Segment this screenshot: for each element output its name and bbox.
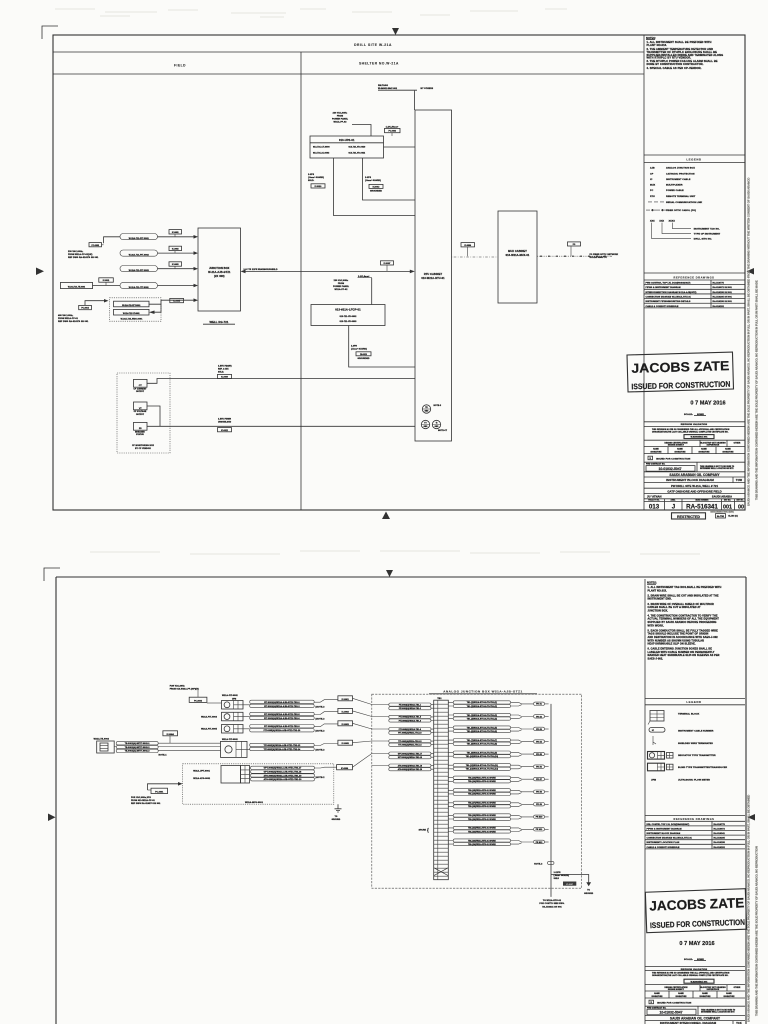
svg-text:W21A-ATG-0001: W21A-ATG-0001	[193, 777, 211, 780]
svg-text:SIGNATURE: SIGNATURE	[699, 450, 711, 453]
svg-text:W-21A-721-PIT-0001: W-21A-721-PIT-0001	[129, 237, 149, 240]
svg-text:FOR CONT'D SEE DWG.: FOR CONT'D SEE DWG.	[539, 903, 565, 905]
sheet 2 notes-legend column border	[644, 579, 646, 1024]
incoming field wires to junction box	[353, 698, 389, 704]
svg-text:DI-0013: DI-0013	[360, 354, 367, 356]
svg-text:SUPERVISOR: SUPERVISOR	[707, 989, 720, 991]
svg-text:W21A-TIT-0002: W21A-TIT-0002	[222, 738, 239, 741]
cable tag DI-0013 grounded	[369, 184, 383, 188]
svg-text:JUNCTION BOX: JUNCTION BOX	[209, 267, 230, 270]
svg-text:480 VAC,60Hz,: 480 VAC,60Hz,	[58, 314, 74, 317]
svg-text:TB1-(20)/W21A-RTU-01 SPARE: TB1-(20)/W21A-RTU-01 SPARE	[468, 818, 496, 821]
svg-text:SCALE:: SCALE:	[684, 413, 693, 416]
svg-text:DESIGN AGENCY: DESIGN AGENCY	[668, 443, 685, 446]
svg-text:TB1-(15)/W21A-RTU-01 SPARE: TB1-(15)/W21A-RTU-01 SPARE	[468, 789, 496, 792]
svg-text:FO FIBER OPTIC NETWORK: FO FIBER OPTIC NETWORK	[590, 254, 619, 256]
wire UPS bottom to RTU 1	[334, 158, 416, 216]
svg-text:OTHER: OTHER	[734, 987, 741, 989]
cp breaker status instrument	[134, 422, 148, 430]
svg-text:PWD CONTRACT NO.: PWD CONTRACT NO.	[646, 463, 666, 466]
svg-text:PR #7: PR #7	[536, 779, 542, 781]
svg-text:013: 013	[649, 504, 660, 511]
revision validation band	[644, 421, 745, 423]
svg-text:013-721-VD-0003: 013-721-VD-0003	[340, 321, 357, 323]
svg-text:TB1-(8)/W21A-RTU-01-TB-TB1-(8): TB1-(8)/W21A-RTU-01-TB-TB1-(8)	[467, 743, 498, 746]
wire arrow into VT instrument	[154, 304, 161, 312]
svg-text:SCALE:: SCALE:	[684, 958, 693, 961]
svg-text:GMS: GMS	[425, 411, 429, 413]
svg-text:NOTE-1: NOTE-1	[159, 754, 168, 756]
svg-text:TB1-(9)/W21A-RTU-01-TB-TB1-(9): TB1-(9)/W21A-RTU-01-TB-TB1-(9)	[467, 751, 498, 754]
svg-text:MULTIPLEXER: MULTIPLEXER	[666, 184, 683, 186]
sheet 1 top center tick	[392, 28, 399, 35]
cable tag IC-0004 sheet2	[163, 731, 178, 736]
svg-text:PIT-0003(A)/W21A-TB1-5: PIT-0003(A)/W21A-TB1-5	[399, 716, 421, 719]
svg-text:ANALOG JUNCTION BOX W21A-AJB-: ANALOG JUNCTION BOX W21A-AJB-GTZ1	[443, 690, 523, 694]
svg-text:PIT-0005(A)/W21A-TB1-9: PIT-0005(A)/W21A-TB1-9	[399, 728, 421, 731]
cable tag IC-0001 sheet2	[338, 696, 353, 701]
cable tag IC-0007 exit	[563, 882, 576, 886]
tag format leader lines	[652, 223, 691, 239]
svg-text:XXX: XXX	[650, 221, 655, 223]
svg-text:SIGNATURE: SIGNATURE	[724, 995, 736, 998]
svg-text:INSTRUMENT CABLE: INSTRUMENT CABLE	[666, 178, 691, 181]
power tag PC-0004	[79, 305, 92, 309]
svg-text:W21A-PIT-0003: W21A-PIT-0003	[201, 715, 218, 718]
svg-text:INSTRUMENT BLOCK DIAGRAM: INSTRUMENT BLOCK DIAGRAM	[666, 478, 714, 482]
legend serial communication link symbol	[648, 201, 664, 203]
svg-text:JUNCTION BOX.: JUNCTION BOX.	[648, 609, 669, 612]
svg-text:TB1-(24)/W21A-RTU-01 SPARE: TB1-(24)/W21A-RTU-01 SPARE	[468, 843, 496, 846]
RESTRICTED stamp	[672, 513, 706, 519]
stadium labels row B	[250, 712, 315, 715]
revision feature box sheet2	[684, 979, 714, 983]
svg-text:SIGNATURE: SIGNATURE	[700, 995, 712, 998]
svg-text:GROUND: GROUND	[332, 819, 341, 821]
svg-text:W-21A-721-XPT-0001: W-21A-721-XPT-0001	[122, 304, 140, 307]
scan artifact marks between sheets	[90, 551, 700, 554]
svg-text:W-21A-AJB-GTZ1: W-21A-AJB-GTZ1	[208, 271, 231, 274]
cable tag IC-0005 row5	[170, 298, 184, 302]
svg-text:FROM: FROM	[337, 115, 344, 117]
svg-text:CP: CP	[650, 174, 654, 176]
svg-text:TCW: TCW	[736, 478, 743, 482]
svg-text:W-214-721-WDS-0001: W-214-721-WDS-0001	[121, 318, 144, 321]
svg-text:IC-0003: IC-0003	[172, 264, 179, 266]
svg-text:TB1-(6)/W21A-RTU-01-TB-TB1-(6): TB1-(6)/W21A-RTU-01-TB-TB1-(6)	[467, 730, 498, 733]
svg-text:SCADA 9600FT-C: SCADA 9600FT-C	[590, 256, 608, 259]
svg-text:1-UPS: 1-UPS	[365, 177, 372, 179]
svg-text:TB1-(23)/W21A-RTU-01 SPARE: TB1-(23)/W21A-RTU-01 SPARE	[468, 839, 496, 842]
mov wire labels	[251, 766, 315, 769]
transmitter symbol row A	[222, 701, 244, 710]
svg-text:(.5mm² GUARD): (.5mm² GUARD)	[308, 176, 324, 179]
wire row A to tag	[243, 700, 338, 705]
svg-text:TE-0002(A)-W/TIT-0002-2: TE-0002(A)-W/TIT-0002-2	[125, 746, 150, 749]
svg-text:RM.TAGS: RM.TAGS	[378, 84, 388, 87]
svg-text:MUX: MUX	[650, 184, 656, 186]
svg-text:TE-0002(A)-W/TIT-0002-1: TE-0002(A)-W/TIT-0002-1	[125, 742, 150, 745]
svg-text:PR #5: PR #5	[536, 754, 542, 756]
svg-text:ATG-0001(A)/W21A-AJB-GTZ1-TB1-: ATG-0001(A)/W21A-AJB-GTZ1-TB1-19	[264, 774, 302, 777]
svg-text:PR #8: PR #8	[536, 792, 542, 794]
svg-text:PIPNG & INSTRUMENT DIAGRAM: PIPNG & INSTRUMENT DIAGRAM	[647, 827, 682, 830]
main field cable wire to RTU	[243, 270, 413, 272]
svg-text:REFERENCE DRAWINGS: REFERENCE DRAWINGS	[674, 275, 715, 279]
svg-text:10-01032-5047: 10-01032-5047	[658, 467, 681, 471]
svg-text:BY OTHERS: BY OTHERS	[421, 88, 434, 90]
svg-text:IC-0001: IC-0001	[172, 232, 179, 234]
svg-text:NOTE-C7: NOTE-C7	[438, 430, 447, 432]
svg-text:PR #12: PR #12	[536, 842, 543, 844]
svg-text:PC-0001: PC-0001	[155, 792, 164, 794]
svg-text:TB1-(5)/W21A-RTU-01-TB-TB1-(5): TB1-(5)/W21A-RTU-01-TB-TB1-(5)	[467, 726, 498, 729]
sheet 2 top center tick	[386, 570, 393, 577]
cable tag IC-0002	[169, 246, 182, 250]
svg-text:PIT-0005(A)/W21A-AJB-GTZ1-TB1-: PIT-0005(A)/W21A-AJB-GTZ1-TB1-10	[264, 729, 301, 732]
wire tag row A	[207, 702, 222, 704]
svg-text:W-84002-5047-001: W-84002-5047-001	[378, 87, 398, 90]
svg-text:INSTRUMENT CABLE NUMBER: INSTRUMENT CABLE NUMBER	[678, 729, 714, 732]
cable tag DI-0013 lfcp	[356, 352, 371, 356]
svg-text:JU 'ATNAH: JU 'ATNAH	[647, 495, 662, 499]
scan artifact marks top	[55, 9, 567, 13]
svg-text:GROUNDED: GROUNDED	[358, 358, 371, 360]
svg-text:}NOTE-2: }NOTE-2	[316, 731, 326, 733]
svg-text:FROM W21A-PP-01: FROM W21A-PP-01	[58, 317, 79, 320]
svg-text:1-2/C,#6mm²: 1-2/C,#6mm²	[386, 125, 399, 128]
svg-text:WELL RG-721: WELL RG-721	[209, 320, 228, 324]
svg-text:J: J	[672, 504, 676, 511]
power tag PC-0003	[89, 243, 102, 247]
svg-text:NAME: NAME	[725, 448, 731, 451]
svg-text:CATHODIC PROTECTION: CATHODIC PROTECTION	[666, 173, 695, 176]
cp wire 1 to RTU	[147, 379, 415, 384]
legend fiber optic cable symbol	[646, 209, 668, 211]
svg-text:BREAKER: BREAKER	[135, 431, 145, 434]
svg-text:ISSUED FOR CONSTRUCTION: ISSUED FOR CONSTRUCTION	[656, 458, 691, 460]
svg-text:013-721-VD-0010: 013-721-VD-0010	[349, 147, 366, 149]
svg-text:SHLD.: SHLD.	[218, 371, 224, 373]
svg-text:1-UPS: 1-UPS	[308, 174, 315, 176]
wire te to tit	[114, 743, 220, 750]
svg-text:013-W21A-MUX-01: 013-W21A-MUX-01	[506, 254, 530, 257]
svg-text:TO: TO	[335, 816, 338, 818]
cable tag IC-0006 sheet2	[337, 765, 353, 770]
svg-text:ATG-0001(A)/W21A-TB1-19: ATG-0001(A)/W21A-TB1-19	[398, 764, 422, 767]
svg-text:001: 001	[723, 505, 732, 511]
cable tag IC-0003 sheet2	[338, 721, 353, 726]
wire row1 to junction box	[158, 236, 197, 238]
svg-text:SPARE: SPARE	[419, 828, 427, 831]
svg-text:HEAT-SHRINKABLE SLIP ON SLEEVE: HEAT-SHRINKABLE SLIP ON SLEEVE.	[648, 643, 696, 646]
svg-text:INSTRUMENT TAG NO.: INSTRUMENT TAG NO.	[694, 228, 720, 231]
svg-text:TIT-0002(A)/W21A-AJB-GTZ1-TB1-: TIT-0002(A)/W21A-AJB-GTZ1-TB1-14	[264, 748, 301, 751]
svg-text:ORGANIZATION,THE LAST COLLABLE: ORGANIZATION,THE LAST COLLABLE ORIGINAL …	[652, 430, 729, 433]
svg-text:}NOTE-2: }NOTE-2	[316, 749, 326, 751]
svg-text:W21A-PIT-0005: W21A-PIT-0005	[201, 727, 218, 730]
legend shielded wire symbol	[653, 736, 656, 745]
svg-text:1-EFX F(8&W): 1-EFX F(8&W)	[218, 365, 232, 367]
sheet 2 left border arrow	[48, 814, 56, 822]
svg-text:CONNECTION DIAGRAM 013-W21A-RT: CONNECTION DIAGRAM 013-W21A-RTU-01	[646, 295, 692, 298]
svg-text:TB1-(13)/W21A-RTU-01 SPARE: TB1-(13)/W21A-RTU-01 SPARE	[468, 777, 496, 780]
svg-text:DONE BY CONSTRUCTION CONTRACTO: DONE BY CONSTRUCTION CONTRACTOR.	[647, 62, 704, 66]
svg-text:REVISION VALIDATION: REVISION VALIDATION	[681, 423, 708, 426]
cable tag IC-0010	[311, 184, 325, 188]
wire feeder to LFCP	[371, 278, 373, 305]
svg-text:PR #9: PR #9	[536, 804, 542, 806]
svg-text:RTU CABINET: RTU CABINET	[424, 273, 443, 276]
issued for construction row	[648, 456, 653, 460]
wire row5 to junction box	[149, 300, 196, 304]
svg-text:TIT-0002(A)/W21A-TB1-14: TIT-0002(A)/W21A-TB1-14	[398, 744, 421, 747]
rtu temperature instrument bubbles	[422, 405, 430, 413]
svg-text:IC-0003: IC-0003	[342, 724, 350, 726]
svg-text:NAME: NAME	[678, 992, 684, 995]
svg-text:IC-0011: IC-0011	[103, 280, 110, 282]
svg-text:FIT-0002(A)/W21A-AJB-GTZ1-TB1-: FIT-0002(A)/W21A-AJB-GTZ1-TB1-2	[264, 705, 299, 708]
wire power to cp instruments	[85, 301, 106, 306]
svg-text:PR #2: PR #2	[536, 716, 542, 718]
svg-text:REF DWG RA-516370 SH 001: REF DWG RA-516370 SH 001	[68, 256, 99, 259]
svg-text:POWER PANEL: POWER PANEL	[333, 285, 350, 288]
svg-text:SIGNATURE: SIGNATURE	[651, 450, 663, 453]
svg-text:ORGANIZATION,THE LAST COLLABLE: ORGANIZATION,THE LAST COLLABLE ORIGINAL …	[652, 974, 729, 977]
svg-text:013-721-21-0003: 013-721-21-0003	[313, 152, 329, 154]
svg-text:W-21A-721-PIT-0002: W-21A-721-PIT-0002	[129, 253, 149, 256]
svg-text:STATUS: STATUS	[136, 433, 144, 436]
ground branch wire	[551, 875, 589, 883]
svg-text:W-84002/5047-001: W-84002/5047-001	[691, 980, 708, 983]
stadium labels row D	[250, 743, 315, 746]
svg-text:NAME: NAME	[701, 448, 707, 451]
svg-text:230 VAC,60Hz: 230 VAC,60Hz	[334, 279, 349, 282]
svg-text:ATG-0001(A)/W21A-AJB-GTZ1-TB1-: ATG-0001(A)/W21A-AJB-GTZ1-TB1-20	[264, 778, 302, 781]
svg-text:REMOTE TERMINAL UNIT: REMOTE TERMINAL UNIT	[666, 195, 696, 198]
svg-text:NAME: NAME	[726, 992, 732, 995]
svg-text:LEGEND: LEGEND	[686, 158, 701, 162]
svg-text:RA-516072: RA-516072	[714, 827, 726, 830]
svg-text:RA-516295 SH 001: RA-516295 SH 001	[713, 300, 733, 303]
svg-text:OTHER: OTHER	[734, 442, 741, 444]
cp cable tag IC-0009	[218, 374, 232, 378]
instrument W-21A-721-VT-0001	[114, 309, 150, 315]
svg-text:INSTRUMENT BLOCK DIAGRAM: INSTRUMENT BLOCK DIAGRAM	[647, 832, 681, 835]
wire row4	[93, 285, 197, 287]
cable tag IC-0001	[169, 230, 182, 234]
svg-text:RA-516295 SH 001: RA-516295 SH 001	[713, 295, 733, 298]
sheet 2 corner mark top-left	[44, 568, 60, 581]
svg-text:W/ARMOR/SHIELD: W/ARMOR/SHIELD	[258, 268, 278, 271]
wire row1 power drop	[104, 237, 120, 243]
svg-text:PIT-0003(A)/W21A-TB1-6: PIT-0003(A)/W21A-TB1-6	[399, 719, 421, 722]
svg-text:THIS DRAWING AND THE INFORMATI: THIS DRAWING AND THE INFORMATION CONTAIN…	[755, 280, 759, 500]
svg-text:PC-0002: PC-0002	[194, 700, 203, 702]
svg-text:CLASS (C): CLASS (C)	[728, 514, 738, 517]
svg-text:TERMINAL BLOCK: TERMINAL BLOCK	[678, 712, 700, 715]
svg-text:W21A-TE-0002: W21A-TE-0002	[94, 738, 110, 741]
svg-text:FIBER OPTIC CABOL (FO): FIBER OPTIC CABOL (FO)	[666, 209, 696, 212]
svg-text:CP MONITORING BOX: CP MONITORING BOX	[132, 445, 155, 447]
svg-text:BLIND TYPE TRANSMITTER/TRANSDU: BLIND TYPE TRANSMITTER/TRANSDUCER	[678, 766, 727, 769]
svg-text:SIGNATURE: SIGNATURE	[676, 995, 688, 998]
svg-text:POWER PANEL: POWER PANEL	[332, 117, 349, 120]
svg-text:GATF ONSHORE AND OFFSHORE FIEL: GATF ONSHORE AND OFFSHORE FIELD	[667, 489, 721, 493]
svg-text:013-721-CT-0000: 013-721-CT-0000	[313, 147, 330, 149]
svg-text:W-84002/5047-001: W-84002/5047-001	[691, 436, 708, 439]
svg-text:SAUDI ARAMCO AND THE INFORMATI: SAUDI ARAMCO AND THE INFORMATION CONTAIN…	[747, 178, 751, 506]
svg-text:XXXX: XXXX	[669, 221, 676, 223]
wire row C	[243, 724, 338, 729]
svg-text:PC-0004: PC-0004	[81, 307, 89, 310]
class box	[716, 514, 726, 518]
svg-text:PR #4: PR #4	[536, 740, 542, 743]
local fire control panel 013-W21A-LFCP-01	[311, 305, 385, 326]
wire UPS bottom to RTU 2	[363, 158, 416, 200]
svg-text:TB1-(1)/W21A-RTU-01-TB-TB1-(1): TB1-(1)/W21A-RTU-01-TB-TB1-(1)	[467, 701, 498, 704]
svg-text:IC: IC	[650, 179, 653, 181]
wire LFCP to RTU	[349, 326, 415, 368]
transmitter symbol row C	[222, 725, 244, 734]
terminal strip spare X marks	[434, 868, 449, 876]
svg-text:AJB: AJB	[650, 167, 655, 170]
svg-text:W21A-PP-02: W21A-PP-02	[335, 288, 349, 291]
cp instruments dashed box	[110, 298, 162, 321]
svg-text:JACOBS ZATE: JACOBS ZATE	[631, 358, 730, 376]
wire from by-others to RTU top	[414, 91, 416, 110]
fiber tag FO-0001	[568, 242, 581, 246]
instrument row 2 transmitter W-21A-721-PIT-0002	[120, 250, 158, 256]
svg-text:IC-0007: IC-0007	[566, 884, 573, 886]
svg-text:PIT-0003(A)/W21A-AJB-GTZ1-TB1-: PIT-0003(A)/W21A-AJB-GTZ1-TB1-6	[264, 717, 300, 720]
svg-text:TB1-(16)/W21A-RTU-01 SPARE: TB1-(16)/W21A-RTU-01 SPARE	[468, 793, 496, 796]
svg-text:W-21A-721-PIT-0003: W-21A-721-PIT-0003	[129, 269, 149, 272]
svg-text:1-12PR: 1-12PR	[554, 872, 562, 874]
svg-text:TIT-0002(A)/W21A-TB1-13: TIT-0002(A)/W21A-TB1-13	[398, 740, 421, 743]
svg-text:XXX: XXX	[659, 221, 664, 223]
svg-text:FOR VAC,60Hz,3PH: FOR VAC,60Hz,3PH	[131, 796, 151, 799]
svg-text:TB1-(2)/W21A-RTU-01-TB-TB1-(2): TB1-(2)/W21A-RTU-01-TB-TB1-(2)	[467, 705, 498, 708]
stamp JACOBS ZATE sheet2	[645, 889, 746, 933]
svg-text:UPT-0001(A)/W21A-TB1-17: UPT-0001(A)/W21A-TB1-17	[398, 752, 422, 755]
svg-text:IC-0005: IC-0005	[342, 743, 350, 745]
svg-text:THIS REVISION AS WB IS CONSI: THIS REVISION AS WB IS CONSIDERED THE AL…	[652, 428, 730, 431]
svg-text:GMS: GMS	[424, 426, 428, 428]
svg-text:SAUDI ARABIA: SAUDI ARABIA	[712, 495, 732, 499]
svg-text:(.5mm² GUARD): (.5mm² GUARD)	[554, 874, 570, 877]
svg-text:TB1-(11)/W21A-RTU-01-TB-TB1-(1: TB1-(11)/W21A-RTU-01-TB-TB1-(11)	[466, 764, 498, 767]
svg-text:THIS REVISION AS WB IS CONSI: THIS REVISION AS WB IS CONSIDERED THE AL…	[652, 972, 730, 975]
cable tag IC-0007	[381, 261, 394, 265]
svg-text:RA-516292: RA-516292	[714, 846, 726, 849]
cable tag IC-0006	[461, 243, 475, 247]
svg-text:TB1-(3)/W21A-RTU-01-TB-TB1-(3): TB1-(3)/W21A-RTU-01-TB-TB1-(3)	[467, 714, 498, 717]
legend blind transmitter symbol	[648, 763, 665, 771]
svg-text:INTERCONNECTION DIAGRAM W-21A-: INTERCONNECTION DIAGRAM W-21A-AJB(GTZ)	[646, 291, 697, 294]
svg-text:DI-0013: DI-0013	[373, 186, 380, 188]
svg-text:IC-0001: IC-0001	[342, 699, 350, 701]
fiber optic wire from MUX	[537, 255, 610, 257]
svg-text:FIT-0002(A)/W21A-TB1-1: FIT-0002(A)/W21A-TB1-1	[399, 703, 421, 706]
svg-text:013-721-VD-0011: 013-721-VD-0011	[349, 152, 366, 154]
svg-text:SHELTER NO.W-21A: SHELTER NO.W-21A	[359, 62, 399, 66]
svg-text:POWER CABLE: POWER CABLE	[666, 189, 684, 192]
svg-text:RA-516775: RA-516775	[714, 823, 726, 826]
legend instrument cable number symbol	[649, 728, 665, 733]
instrument W-21A-721-XPT-0001	[114, 301, 150, 307]
analog junction box dashed outline	[372, 694, 582, 888]
wire row3 to junction box	[158, 268, 197, 270]
svg-text:FROM: FROM	[338, 283, 345, 285]
field/shelter divider wire	[300, 52, 302, 510]
serial link RTU to MUX	[452, 256, 499, 258]
svg-text:}NOTE-2: }NOTE-2	[316, 777, 326, 779]
svg-text:013-W21A-RTU-01: 013-W21A-RTU-01	[421, 277, 445, 280]
svg-text:IC-0010: IC-0010	[315, 186, 322, 188]
svg-text:ULTRASONIC FLOW METER: ULTRASONIC FLOW METER	[678, 779, 710, 782]
UPS cabinet 013-UPS-01	[310, 136, 384, 158]
svg-text:SAES-J-902.: SAES-J-902.	[648, 658, 664, 661]
svg-text:ANALOG JUNCTION BOX: ANALOG JUNCTION BOX	[666, 167, 695, 170]
svg-text:DRL CONTRL TOP LVL DCS(R04032/: DRL CONTRL TOP LVL DCS(R04032/047)	[647, 823, 690, 826]
svg-text:TB1-(10)/W21A-RTU-01-TB-TB1-(1: TB1-(10)/W21A-RTU-01-TB-TB1-(10)	[466, 755, 499, 758]
svg-text:RESTRICTED: RESTRICTED	[677, 515, 700, 519]
svg-text:SUPERVISOR: SUPERVISOR	[707, 444, 720, 446]
svg-text:GROUNDED: GROUNDED	[370, 191, 383, 193]
svg-text:SAUDI ARAMCO AND THE INFORMATI: SAUDI ARAMCO AND THE INFORMATION CONTAIN…	[747, 795, 751, 1022]
svg-text:1-6PR: 1-6PR	[351, 345, 357, 347]
wire row2 to junction box	[158, 252, 197, 254]
MUX cabinet 013-W21A-MUX-01	[498, 211, 537, 303]
svg-text:NOTE-3: NOTE-3	[534, 863, 543, 865]
revision feature box	[684, 435, 714, 439]
sheet 2 right border arrow	[748, 814, 756, 821]
svg-text:CONNECTION DIAGRAM 013-W21A-RT: CONNECTION DIAGRAM 013-W21A-RTU-01	[647, 837, 693, 840]
svg-text:RA-516295 SH 001: RA-516295 SH 001	[713, 291, 733, 294]
svg-text:ATG-0001(A)/W21A-TB1-20: ATG-0001(A)/W21A-TB1-20	[398, 768, 422, 771]
svg-text:RA-516072 SH 001: RA-516072 SH 001	[713, 286, 733, 289]
svg-text:TB1-(21)/W21A-RTU-01 SPARE: TB1-(21)/W21A-RTU-01 SPARE	[468, 827, 496, 830]
svg-text:DESIGN AGENCY: DESIGN AGENCY	[668, 988, 685, 991]
svg-text:IC-0002: IC-0002	[172, 249, 179, 251]
svg-text:TB1-(19)/W21A-RTU-01 SPARE: TB1-(19)/W21A-RTU-01 SPARE	[468, 814, 496, 817]
indicator transmitter symbol row D	[221, 741, 248, 757]
REFERENCE DRAWINGS table sheet1	[644, 272, 745, 274]
LEGEND header band	[644, 154, 745, 156]
svg-text:0 7 MAY 2016: 0 7 MAY 2016	[690, 401, 725, 407]
svg-text:W21A-FIT-0002: W21A-FIT-0002	[222, 694, 239, 697]
svg-text:FOR VAC,60Hz: FOR VAC,60Hz	[170, 684, 185, 687]
svg-text:PC-0002: PC-0002	[389, 131, 396, 133]
svg-text:BY CP VENDOR: BY CP VENDOR	[135, 448, 151, 450]
svg-text:RA-516292: RA-516292	[713, 305, 725, 308]
stadium labels row C	[250, 725, 315, 728]
svg-text:DRILL SITO NO.: DRILL SITO NO.	[694, 239, 713, 241]
sheet 2 outer border	[56, 577, 746, 1024]
svg-text:UPT-0001(A)/W21A-TB1-18: UPT-0001(A)/W21A-TB1-18	[398, 756, 422, 759]
svg-text:FIT-0002(A)/W21A-TB1-2: FIT-0002(A)/W21A-TB1-2	[399, 707, 421, 710]
sheet 1 outer border	[53, 35, 745, 510]
svg-text:NAME: NAME	[677, 448, 683, 451]
svg-text:OUTPUT: OUTPUT	[136, 414, 145, 416]
svg-text:IC-0004: IC-0004	[167, 733, 175, 736]
svg-text:IC-0007: IC-0007	[384, 263, 391, 265]
svg-text:TIT-0002(A)/W21A-AJB-GTZ1-TB1-: TIT-0002(A)/W21A-AJB-GTZ1-TB1-13	[264, 744, 301, 747]
svg-text:TB1-(7)/W21A-RTU-01-TB-TB1-(7): TB1-(7)/W21A-RTU-01-TB-TB1-(7)	[467, 739, 498, 742]
legend indicator transmitter symbol	[648, 752, 665, 760]
cp wire 2 to RTU	[147, 425, 415, 427]
